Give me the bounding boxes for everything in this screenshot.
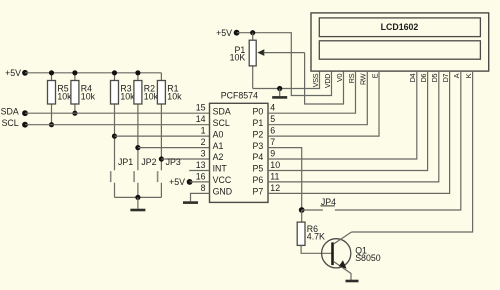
svg-text:14: 14 bbox=[196, 114, 206, 124]
label JP4 bbox=[321, 197, 337, 207]
jumper JP1 bbox=[111, 171, 115, 197]
svg-text:4.7K: 4.7K bbox=[307, 232, 325, 242]
junction R1/A2 bbox=[159, 156, 164, 161]
junction R2/+5V bbox=[135, 70, 140, 75]
svg-text:JP3: JP3 bbox=[166, 157, 181, 167]
value label P1 10K bbox=[230, 45, 246, 62]
junction pot-gnd bbox=[277, 86, 282, 91]
wire VCC stub bbox=[190, 181, 210, 183]
value label R2 10k bbox=[144, 84, 159, 102]
junction R5/+5V bbox=[49, 70, 54, 75]
svg-text:D7: D7 bbox=[441, 74, 450, 83]
svg-text:A1: A1 bbox=[213, 141, 224, 151]
svg-text:D5: D5 bbox=[430, 74, 439, 83]
svg-text:+5V: +5V bbox=[5, 68, 21, 78]
svg-text:5: 5 bbox=[270, 114, 275, 124]
svg-text:12: 12 bbox=[270, 183, 280, 193]
wire +5V rail bbox=[25, 72, 161, 74]
resistor R5 bbox=[48, 73, 56, 125]
svg-text:LCD1602: LCD1602 bbox=[381, 22, 419, 32]
junction R4/+5V bbox=[72, 70, 77, 75]
svg-text:E: E bbox=[370, 73, 379, 78]
svg-text:P7: P7 bbox=[253, 187, 264, 197]
svg-text:A2: A2 bbox=[213, 152, 224, 162]
node +5V (pot terminal) bbox=[216, 28, 239, 38]
ground (emitter) bbox=[346, 280, 359, 283]
svg-text:4: 4 bbox=[270, 103, 275, 113]
wire GND stub bbox=[191, 193, 210, 201]
wire SDA bbox=[25, 112, 210, 114]
svg-text:GND: GND bbox=[213, 187, 233, 197]
ground (IC GND) bbox=[183, 201, 198, 204]
resistor R2 bbox=[134, 73, 142, 171]
svg-text:1: 1 bbox=[201, 126, 206, 136]
svg-text:10: 10 bbox=[270, 160, 280, 170]
svg-text:SDA: SDA bbox=[1, 107, 19, 117]
wire jumper ground rail bbox=[115, 196, 162, 198]
svg-text:10k: 10k bbox=[120, 91, 135, 101]
label Q1 S8050 bbox=[355, 245, 381, 262]
svg-text:P4: P4 bbox=[253, 152, 264, 162]
svg-text:SCL: SCL bbox=[2, 118, 19, 128]
value label R4 10k bbox=[81, 84, 96, 102]
svg-text:15: 15 bbox=[196, 103, 206, 113]
junction pot top bbox=[250, 30, 255, 35]
svg-text:P6: P6 bbox=[253, 175, 264, 185]
resistor R1 bbox=[157, 73, 165, 171]
value label R3 10k bbox=[120, 84, 135, 102]
jumper JP4 bbox=[302, 71, 461, 210]
svg-text:+5V: +5V bbox=[169, 177, 185, 187]
svg-text:INT: INT bbox=[213, 164, 228, 174]
node SCL terminal bbox=[2, 118, 28, 128]
svg-text:11: 11 bbox=[270, 171, 279, 181]
wire INT stub bbox=[189, 170, 209, 172]
potentiometer P1 bbox=[249, 33, 304, 89]
value label R6 4.7K bbox=[307, 224, 325, 242]
wire P4 to D4 bbox=[268, 71, 417, 159]
svg-text:10k: 10k bbox=[167, 91, 182, 101]
svg-text:16: 16 bbox=[196, 171, 206, 181]
wire P3 down bbox=[268, 148, 302, 210]
svg-text:P1: P1 bbox=[253, 118, 264, 128]
transistor Q1 bbox=[322, 232, 352, 280]
svg-text:JP2: JP2 bbox=[141, 157, 156, 167]
svg-text:P2: P2 bbox=[253, 129, 264, 139]
wire +5V to VDD bbox=[237, 33, 332, 96]
wire SCL bbox=[25, 124, 210, 126]
wire pot bottom to VSS bbox=[253, 71, 320, 88]
wire A2 bbox=[161, 158, 209, 160]
svg-text:A0: A0 bbox=[213, 129, 224, 139]
op-amp U1 PCF8574 body bbox=[210, 103, 269, 202]
svg-text:SDA: SDA bbox=[213, 107, 231, 117]
svg-text:S8050: S8050 bbox=[355, 253, 381, 263]
svg-text:VCC: VCC bbox=[213, 175, 232, 185]
junction R5/SCL bbox=[49, 122, 54, 127]
svg-text:10K: 10K bbox=[230, 52, 246, 62]
svg-text:RW: RW bbox=[359, 73, 368, 85]
svg-text:D6: D6 bbox=[419, 74, 428, 83]
svg-text:K: K bbox=[464, 73, 473, 78]
node +5V (VCC terminal) bbox=[169, 177, 192, 187]
svg-text:PCF8574: PCF8574 bbox=[221, 90, 258, 100]
svg-text:10k: 10k bbox=[144, 91, 159, 101]
junction R3/A0 bbox=[112, 134, 117, 139]
wire P6 to D5 bbox=[268, 71, 439, 182]
svg-text:P0: P0 bbox=[253, 107, 264, 117]
junction R3/+5V bbox=[112, 70, 117, 75]
wire A1 bbox=[138, 147, 210, 149]
node SDA terminal bbox=[1, 107, 28, 117]
svg-text:VSS: VSS bbox=[311, 73, 320, 87]
resistor R4 bbox=[71, 73, 79, 113]
svg-text:6: 6 bbox=[270, 126, 275, 136]
junction P3/R6/JP4 bbox=[299, 207, 305, 213]
junction R4/SDA bbox=[72, 111, 77, 116]
wire K to collector bbox=[352, 71, 473, 232]
jumper JP2 bbox=[134, 171, 138, 197]
resistor R6 bbox=[297, 210, 331, 253]
svg-text:8: 8 bbox=[201, 183, 206, 193]
svg-text:10k: 10k bbox=[57, 91, 72, 101]
svg-text:RS: RS bbox=[347, 73, 356, 83]
value label R5 10k bbox=[57, 84, 72, 102]
wire A0 bbox=[115, 135, 210, 137]
svg-text:+5V: +5V bbox=[216, 28, 232, 38]
wire wiper to V0 bbox=[305, 53, 344, 104]
value label R1 10k bbox=[167, 84, 182, 102]
svg-text:JP1: JP1 bbox=[118, 157, 133, 167]
svg-text:P3: P3 bbox=[253, 141, 264, 151]
svg-text:A: A bbox=[452, 73, 461, 78]
LCD module LCD1602 bbox=[311, 13, 489, 71]
wire P1 to RW bbox=[268, 71, 367, 125]
svg-text:13: 13 bbox=[196, 160, 206, 170]
svg-text:P5: P5 bbox=[253, 164, 264, 174]
svg-text:V0: V0 bbox=[335, 74, 344, 82]
svg-text:9: 9 bbox=[270, 148, 275, 158]
junction rail/ground bbox=[135, 195, 140, 200]
svg-text:7: 7 bbox=[270, 137, 275, 147]
wire P0 to RS bbox=[268, 71, 356, 113]
svg-text:D4: D4 bbox=[408, 74, 417, 83]
wire P7 to D7 bbox=[268, 71, 450, 193]
svg-text:2: 2 bbox=[201, 137, 206, 147]
svg-text:3: 3 bbox=[201, 148, 206, 158]
node +5V (top-left terminal) bbox=[5, 68, 28, 78]
jumper JP3 bbox=[158, 171, 162, 197]
ground (below JP2) bbox=[130, 197, 145, 210]
svg-text:10k: 10k bbox=[81, 91, 96, 101]
resistor R3 bbox=[111, 73, 119, 171]
ground (below P1) bbox=[272, 89, 287, 98]
svg-text:SCL: SCL bbox=[213, 118, 230, 128]
wire P2 to E bbox=[268, 71, 379, 136]
junction R2/A1 bbox=[135, 145, 140, 150]
wire P5 to D6 bbox=[268, 71, 428, 170]
svg-text:VDD: VDD bbox=[323, 74, 332, 88]
